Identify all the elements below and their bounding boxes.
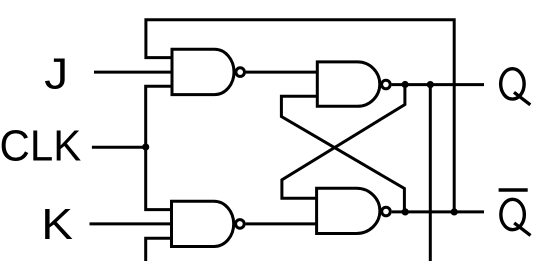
nand gate U1 body (3-input, top-left) [172, 49, 234, 94]
label Qbar letter (tail slash) [514, 223, 530, 236]
label Qbar letter (ring) [501, 199, 525, 229]
wire U4 output to Qbar [392, 210, 484, 213]
wire J lead [94, 71, 172, 74]
label Q (tail slash) [514, 92, 530, 105]
label Qbar overbar [499, 188, 528, 192]
junction Qbar node (top feedback) [451, 208, 458, 215]
wire cross-couple B: Q node diagonally down to U4 input 1 [282, 85, 405, 199]
nand gate U2 body (3-input, bottom-left) [172, 201, 234, 246]
wire CLK net vertical joining U1 pin 3 and U2 pin 1 [146, 86, 172, 209]
junction CLK node [142, 143, 149, 150]
junction Q node (feedback drop) [427, 81, 434, 88]
svg-text:J: J [44, 48, 68, 98]
nand gate U4 bubble [382, 207, 391, 216]
nand gate U2 bubble [236, 220, 245, 229]
svg-text:K: K [41, 200, 73, 249]
nand gate U3 body (2-input, top-right) [317, 62, 379, 106]
wire U2 pin 3 feedback from Q (runs off bottom edge) [146, 238, 172, 261]
wire K lead [90, 222, 172, 225]
wire U3 output to Q [392, 83, 484, 86]
label Q (ring) [501, 69, 525, 99]
junction Q node (cross-couple) [402, 81, 409, 88]
svg-text:CLK: CLK [0, 122, 82, 171]
wire top feedback from Qbar node over the top to U1 input 1 [146, 20, 454, 212]
nand gate U1 bubble [236, 68, 245, 77]
junction Qbar node (cross-couple) [402, 208, 409, 215]
wire cross-couple A: Qbar node diagonally up to U3 input 2 [281, 96, 404, 212]
wire U1 output to U3 input 1 [246, 71, 317, 74]
wire U2 output to U4 input 2 [246, 222, 317, 225]
wire Q feedback dropping off bottom edge [429, 85, 432, 261]
nand gate U3 bubble [382, 80, 391, 89]
wire CLK lead [92, 146, 146, 149]
nand gate U4 body (2-input, bottom-right) [317, 188, 380, 233]
